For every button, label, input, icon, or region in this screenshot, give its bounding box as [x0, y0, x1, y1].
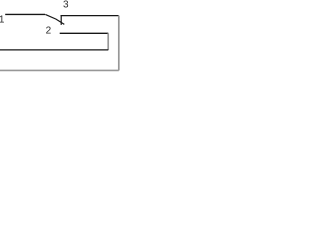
svg-text:2: 2 — [46, 26, 52, 37]
svg-text:1: 1 — [0, 14, 5, 25]
svg-text:3: 3 — [63, 0, 69, 10]
